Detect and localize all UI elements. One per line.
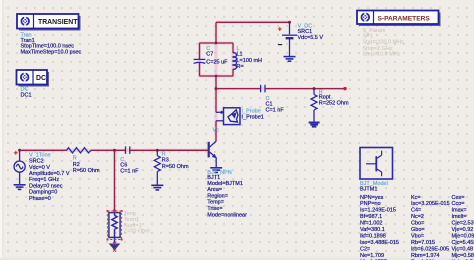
svg-text:Mode=nonlinear: Mode=nonlinear <box>207 212 247 218</box>
wire: input rail SRC2 to R2 <box>20 149 67 151</box>
svg-text:PNP=no: PNP=no <box>360 201 381 207</box>
Term1 labels (ghosted) <box>124 211 151 235</box>
svg-text:Vc: Vc <box>213 128 220 134</box>
svg-text:Cco=: Cco= <box>452 201 465 207</box>
BJT model symbol box <box>360 148 393 180</box>
BJT_Model labels <box>360 181 388 193</box>
ground below SRC1 <box>284 57 296 62</box>
C7 labels <box>206 46 228 65</box>
BJT_Model parameter column 3 <box>452 195 474 260</box>
S-PARAMETERS parameter labels (deactivated/ghosted) <box>363 28 405 57</box>
svg-text:Irb=6.026E-005: Irb=6.026E-005 <box>411 246 449 252</box>
svg-text:R3: R3 <box>162 158 169 164</box>
svg-text:Mje=0.09: Mje=0.09 <box>452 234 474 240</box>
I_Probe labels <box>242 108 264 120</box>
node: output junction <box>215 87 218 90</box>
simulation controller S-PARAMETERS <box>357 11 441 27</box>
svg-text:Vjc=0.48: Vjc=0.48 <box>452 246 474 252</box>
transistor BJT1 <box>209 141 217 167</box>
node: Ropt junction <box>313 87 316 90</box>
svg-text:Delay=0 nsec: Delay=0 nsec <box>29 183 63 189</box>
svg-text:SP1: SP1 <box>363 34 373 40</box>
node: V_DC top <box>288 21 291 24</box>
Term1 pin marks (red) <box>113 210 116 252</box>
L1 labels <box>237 46 263 70</box>
svg-text:SRC2: SRC2 <box>29 159 44 165</box>
svg-text:R2: R2 <box>73 162 80 168</box>
Term1 ground triangle <box>109 244 121 251</box>
left window edge strip <box>0 0 3 260</box>
svg-text:Area=: Area= <box>207 187 222 193</box>
term Term1 symbol <box>109 211 120 243</box>
resistor Ropt <box>311 89 317 122</box>
svg-text:Trise=: Trise= <box>207 206 222 212</box>
simulation controller TRANSIENT <box>17 14 81 31</box>
svg-text:R: R <box>73 155 77 161</box>
DC parameter labels <box>21 87 32 99</box>
svg-text:Vje=0.92: Vje=0.92 <box>452 227 474 233</box>
svg-text:R=50 Ohm: R=50 Ohm <box>73 168 100 174</box>
svg-text:Nc=2: Nc=2 <box>411 214 424 220</box>
voltage source SRC2 V_1Tone <box>14 150 25 184</box>
svg-text:Bf=987.1: Bf=987.1 <box>360 214 382 220</box>
wire: output rail right of C1 to open end <box>265 88 345 90</box>
svg-text:Rb=7.015: Rb=7.015 <box>411 240 435 246</box>
wire: tank top feed <box>215 22 217 43</box>
svg-text:Phase=0: Phase=0 <box>29 196 51 202</box>
svg-text:Vdc=0 V: Vdc=0 V <box>29 165 50 171</box>
svg-text:Nf=1.002: Nf=1.002 <box>360 221 382 227</box>
svg-text:C7: C7 <box>206 52 213 58</box>
wire halo (jpeg-style pink fringe) <box>20 22 345 211</box>
svg-text:L1: L1 <box>237 52 243 58</box>
svg-text:NPN=yes: NPN=yes <box>360 195 384 201</box>
wire: feed from tank bottom to output junction and probe <box>215 76 217 112</box>
svg-text:Vaf=380.1: Vaf=380.1 <box>360 227 385 233</box>
C1 labels <box>266 96 285 114</box>
wire: junction down to Term1 <box>114 150 116 211</box>
svg-text:C=1 nF: C=1 nF <box>120 169 139 175</box>
svg-text:TRANSIENT: TRANSIENT <box>38 19 78 26</box>
wire: input rail R2 to C6 <box>91 149 125 151</box>
resistor R2 <box>67 148 92 153</box>
svg-text:Model=BJTM1: Model=BJTM1 <box>207 181 243 187</box>
svg-text:BJTM1: BJTM1 <box>360 187 377 193</box>
Term1 selection box (red dashed) <box>107 211 121 240</box>
ground below emitter <box>210 168 222 173</box>
svg-text:L=100 mH: L=100 mH <box>237 58 263 64</box>
ground below Ropt <box>309 123 320 127</box>
svg-text:Rbm=1.974: Rbm=1.974 <box>411 253 440 259</box>
SRC2 labels <box>29 152 70 201</box>
SRC1 minus sign <box>278 44 282 46</box>
svg-text:Amplitude=0.7 V: Amplitude=0.7 V <box>29 171 70 177</box>
svg-text:C4=: C4= <box>411 208 421 214</box>
voltage source SRC1 V_DC <box>282 22 297 56</box>
inductor L1 <box>233 53 236 70</box>
Ropt labels <box>319 89 349 106</box>
wire: top rail from tank feed to V_DC <box>216 21 290 23</box>
svg-text:Cjc=5.45E-013: Cjc=5.45E-013 <box>452 240 474 246</box>
svg-text:Cbo=: Cbo= <box>411 221 424 227</box>
svg-text:Ne=1.709: Ne=1.709 <box>360 253 384 259</box>
node: open wire end (red) <box>343 87 346 90</box>
node: SRC2 top <box>18 149 21 152</box>
svg-text:MaxTimeStep=10.0 psec: MaxTimeStep=10.0 psec <box>21 50 82 56</box>
resistor R3 <box>154 150 160 185</box>
SRC1 plus sign <box>278 27 282 31</box>
ground below R3 <box>151 185 163 190</box>
node: tank bottom feed junction <box>215 75 218 78</box>
SRC2 plus sign (red) <box>14 151 18 155</box>
svg-text:Is=1.249E-015: Is=1.249E-015 <box>360 208 396 214</box>
svg-text:R=: R= <box>237 64 244 70</box>
simulation controller DC <box>17 70 50 87</box>
wire: base lead <box>157 149 200 151</box>
wire: input rail C6 to base <box>130 149 209 151</box>
node: Term junction <box>113 149 116 152</box>
R2 labels <box>73 155 100 174</box>
svg-text:Imax=: Imax= <box>452 208 467 214</box>
current probe I_Probe1 <box>216 108 240 125</box>
capacitor C7 <box>194 59 206 63</box>
TRANSIENT parameter labels <box>21 32 82 55</box>
node: R3 junction <box>156 149 159 152</box>
svg-text:Damping=0: Damping=0 <box>29 190 57 196</box>
C6 labels <box>120 157 139 175</box>
BJT1 labels <box>207 170 247 219</box>
svg-text:R=50 Ohm: R=50 Ohm <box>162 164 189 170</box>
svg-text:Kc=: Kc= <box>411 195 421 201</box>
svg-text:Gbo=: Gbo= <box>411 227 425 233</box>
wire: probe to collector <box>215 121 217 142</box>
svg-text:Z=50 Ohm: Z=50 Ohm <box>124 229 151 235</box>
BJT_Model parameter column 2 <box>411 195 450 260</box>
svg-text:Freq=1 GHz: Freq=1 GHz <box>29 177 59 183</box>
svg-text:DC: DC <box>36 75 46 82</box>
svg-text:R=252 Ohm: R=252 Ohm <box>319 100 349 106</box>
node: tank top feed junction <box>215 42 218 45</box>
svg-text:Imelt=: Imelt= <box>452 214 467 220</box>
BJT_Model parameter column 1 <box>360 195 399 260</box>
svg-text:Ise=3.488E-015: Ise=3.488E-015 <box>360 240 399 246</box>
ground below SRC2 <box>14 185 26 190</box>
capacitor C6 <box>126 146 130 154</box>
svg-text:Step=10.0 MHz: Step=10.0 MHz <box>363 51 401 57</box>
wire: output rail left of C1 <box>216 88 260 90</box>
svg-text:S-PARAMETERS: S-PARAMETERS <box>378 16 431 23</box>
svg-text:Region=: Region= <box>207 193 228 199</box>
svg-text:Vbo=: Vbo= <box>411 234 424 240</box>
capacitor C1 <box>261 85 265 93</box>
wire: LC tank rectangle <box>200 43 234 76</box>
svg-text:Vdc=5.5 V: Vdc=5.5 V <box>298 35 324 41</box>
svg-text:Isc=3.205E-015: Isc=3.205E-015 <box>411 201 450 207</box>
svg-text:C=1 nF: C=1 nF <box>266 108 285 114</box>
svg-text:I_Probe1: I_Probe1 <box>242 114 264 120</box>
svg-text:Mjc=0.58: Mjc=0.58 <box>452 253 474 259</box>
SRC1 labels <box>298 24 324 41</box>
svg-text:Start=100.0 MHz: Start=100.0 MHz <box>363 40 405 46</box>
svg-text:BJT1: BJT1 <box>207 175 220 181</box>
svg-text:Cje=2.53E-013: Cje=2.53E-013 <box>452 221 474 227</box>
svg-text:R: R <box>162 152 166 158</box>
svg-text:Cex=: Cex= <box>452 195 465 201</box>
svg-text:C2=: C2= <box>360 246 370 252</box>
svg-text:C=25 uF: C=25 uF <box>206 59 228 65</box>
svg-text:Temp=: Temp= <box>207 200 224 206</box>
svg-text:DC1: DC1 <box>21 92 32 98</box>
bottom window edge strip <box>0 258 474 260</box>
svg-text:V_1Tone: V_1Tone <box>29 152 51 158</box>
R3 labels <box>162 152 189 170</box>
svg-text:Ikf=0.1898: Ikf=0.1898 <box>360 234 386 240</box>
